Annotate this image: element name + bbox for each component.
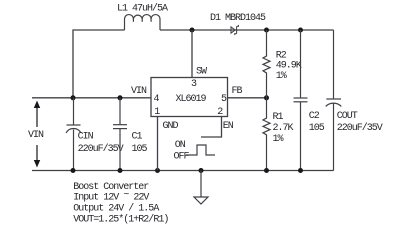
svg-text:ON: ON: [175, 140, 186, 151]
annotation line 2: [73, 190, 149, 204]
label R2 value: [276, 60, 302, 71]
node CIN top: [71, 95, 76, 100]
node C1 bottom: [118, 168, 123, 173]
label L1 value: [117, 3, 168, 15]
node C2 top: [298, 28, 303, 33]
inductor L1: [125, 15, 161, 30]
svg-text:49.9K: 49.9K: [276, 60, 302, 71]
svg-text:3: 3: [191, 79, 197, 90]
label R2 tolerance: [276, 71, 287, 82]
svg-text:105: 105: [132, 144, 148, 155]
annotation line 1: [73, 182, 149, 193]
pin number 4: [154, 94, 160, 105]
svg-text:CIN: CIN: [78, 131, 94, 142]
label COUT value: [337, 122, 383, 134]
svg-text:C1: C1: [132, 131, 143, 142]
diode D1: [231, 25, 238, 35]
label C2 value: [309, 123, 325, 134]
svg-text:R1: R1: [273, 112, 284, 123]
node R2 top: [264, 28, 269, 33]
wire input riser to inductor: [73, 30, 125, 98]
svg-text:Input 12V ~ 22V: Input 12V ~ 22V: [73, 190, 149, 204]
label C1: [132, 131, 143, 142]
VIN input up arrow: [34, 101, 40, 128]
capacitor CIN: [66, 98, 81, 171]
svg-text:4: 4: [154, 94, 160, 105]
svg-text:EN: EN: [223, 121, 234, 132]
capacitor C1: [113, 98, 127, 171]
label XL6019: [176, 94, 207, 105]
resistor R2: [263, 30, 270, 98]
svg-text:VIN: VIN: [28, 130, 44, 141]
label R1 tolerance: [273, 134, 284, 145]
wire VIN rail: [32, 97, 151, 99]
label VIN input: [28, 130, 44, 141]
svg-text:XL6019: XL6019: [176, 94, 207, 105]
node C1 top: [118, 95, 123, 100]
node ground junction: [199, 168, 204, 173]
capacitor COUT: [326, 30, 342, 171]
label FB: [232, 86, 243, 97]
resistor R1: [263, 98, 270, 171]
svg-text:Boost Converter: Boost Converter: [73, 182, 149, 193]
annotation line 3: [73, 203, 159, 215]
wire GND pin 1: [157, 117, 159, 171]
svg-text:VIN: VIN: [131, 86, 147, 97]
pin number 3: [191, 79, 197, 90]
wire FB: [228, 97, 267, 99]
wire SW pin 3: [191, 30, 193, 78]
node GND pin bottom: [155, 168, 160, 173]
label OFF: [174, 152, 190, 163]
wire output rail: [237, 29, 334, 31]
svg-text:1%: 1%: [273, 134, 284, 145]
label CIN: [78, 131, 94, 142]
label GND: [163, 121, 179, 132]
IC U1 XL6019: [151, 78, 228, 117]
svg-text:L1 47uH/5A: L1 47uH/5A: [117, 3, 168, 15]
label D1: [210, 13, 266, 24]
svg-text:OFF: OFF: [174, 152, 190, 163]
pin number 2: [217, 107, 223, 118]
svg-text:SW: SW: [196, 67, 207, 78]
svg-text:2.7K: 2.7K: [273, 123, 294, 134]
svg-text:COUT: COUT: [337, 111, 358, 122]
svg-text:220uF/35V: 220uF/35V: [78, 143, 124, 155]
svg-text:D1 MBRD1045: D1 MBRD1045: [210, 13, 266, 24]
node FB junction: [264, 95, 269, 100]
label R1: [273, 112, 284, 123]
label C1 value: [132, 144, 148, 155]
label VIN pin: [131, 86, 147, 97]
VIN input down arrow: [34, 145, 40, 168]
wire inductor to diode (SW node): [160, 29, 237, 31]
annotation line 4: [73, 214, 168, 226]
label R2: [276, 50, 287, 61]
svg-text:5: 5: [221, 94, 227, 105]
pin number 1: [154, 107, 160, 118]
ground: [194, 171, 208, 205]
wire bottom rail: [32, 170, 334, 172]
node R1 bottom: [264, 168, 269, 173]
svg-text:220uF/35V: 220uF/35V: [337, 122, 383, 134]
label COUT: [337, 111, 358, 122]
svg-text:GND: GND: [163, 121, 179, 132]
svg-text:FB: FB: [232, 86, 243, 97]
svg-text:1%: 1%: [276, 71, 287, 82]
label R1 value: [273, 123, 294, 134]
svg-text:Output 24V / 1.5A: Output 24V / 1.5A: [73, 203, 159, 215]
capacitor C2: [294, 30, 308, 171]
ON/OFF pulse waveform: [186, 145, 215, 155]
label EN: [223, 121, 234, 132]
label ON: [175, 140, 186, 151]
svg-text:VOUT=1.25*(1+R2/R1): VOUT=1.25*(1+R2/R1): [73, 214, 168, 226]
node SW junction: [190, 28, 195, 33]
label SW: [196, 67, 207, 78]
node CIN bottom: [71, 168, 76, 173]
pin number 5: [221, 94, 227, 105]
node C2 bottom: [298, 168, 303, 173]
label CIN value: [78, 143, 124, 155]
svg-text:105: 105: [309, 123, 325, 134]
label C2: [309, 111, 320, 122]
svg-text:C2: C2: [309, 111, 320, 122]
wire EN pin 2: [201, 117, 222, 138]
